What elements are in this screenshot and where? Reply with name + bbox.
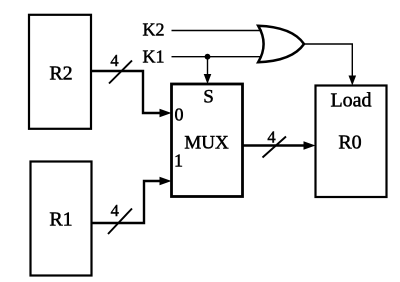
svg-text:R1: R1 (49, 209, 72, 231)
bus R2 to MUX input 0 (90, 71, 172, 117)
svg-text:K1: K1 (143, 47, 165, 67)
svg-text:MUX: MUX (184, 133, 229, 154)
svg-text:4: 4 (267, 128, 275, 147)
svg-text:0: 0 (175, 105, 184, 125)
svg-text:K2: K2 (143, 20, 165, 40)
bus R1 to MUX input 1 (91, 177, 172, 223)
svg-text:4: 4 (110, 51, 118, 70)
svg-text:4: 4 (111, 201, 119, 220)
wire K2 to OR input (172, 30, 263, 32)
bus MUX output to R0 (243, 141, 316, 150)
wire K1 to OR input (172, 56, 263, 58)
wire K1 junction down to MUX select S (204, 57, 212, 84)
svg-text:1: 1 (174, 151, 183, 171)
svg-text:S: S (203, 87, 214, 108)
register R2 (29, 15, 91, 129)
bus width slash (R1 bus) (108, 209, 132, 235)
bus width slash (output bus) (263, 137, 287, 158)
multiplexer MUX box (172, 84, 243, 197)
wire OR output to R0 Load (304, 44, 356, 86)
svg-text:R0: R0 (338, 132, 361, 154)
register R0 box (316, 86, 387, 198)
or-gate G1 (258, 26, 304, 62)
register R1 (31, 162, 92, 276)
svg-text:R2: R2 (49, 63, 72, 85)
bus width slash (R2 bus) (109, 61, 132, 84)
svg-text:Load: Load (330, 90, 371, 112)
junction node on K1 (205, 54, 211, 60)
